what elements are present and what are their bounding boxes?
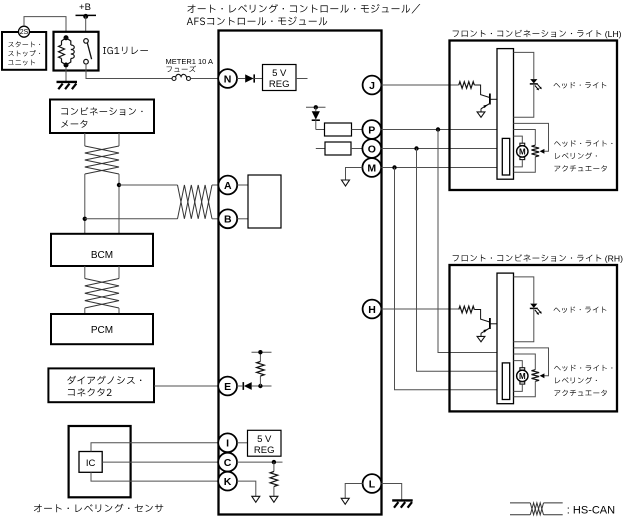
svg-text:2S: 2S [20,29,29,36]
position sensor potentiometer (RH) [514,354,540,397]
svg-text:PCM: PCM [91,325,113,336]
wire rail to resistor R1 [316,107,325,129]
internal ground arrow (L) [341,498,349,504]
svg-text:O: O [368,143,376,155]
svg-text:J: J [369,80,375,92]
diode D1 (N input) [245,74,254,82]
wire resistor to transistor base RH [474,310,489,322]
headlight label (LH) [554,82,607,88]
terminal P [362,120,381,139]
terminal E [218,377,237,396]
leveling motor M (RH) [514,361,529,392]
wire resistor to transistor base LH [474,85,489,97]
wire E to diode [237,385,243,387]
regulator U1 5V REG [263,65,297,91]
svg-text:REG: REG [269,79,290,90]
front combination light LH label [453,29,622,39]
wire C internal [237,460,283,464]
diode D3 (E) [243,382,251,390]
wire sensor IC to C [102,461,218,463]
svg-text:I: I [226,438,229,450]
potentiometer wiper wire (RH) [514,348,549,378]
svg-text:L: L [369,478,376,490]
front combination light RH label [453,253,623,263]
twisted pair wire (BCM-PCM) [85,266,119,314]
wire K internal [237,481,256,496]
wire N to diode [237,78,245,80]
lamp connector (LH) [497,49,514,180]
resistor (headlight relay drive RH) [459,306,475,313]
terminal K [218,472,237,491]
wire A to CAN block [237,184,248,186]
wire J to LH light [381,84,458,86]
connector 2S [19,26,30,37]
combination meter box [50,100,154,134]
relay IG1 switch [84,39,92,64]
wire R2 to O [351,148,362,150]
terminal H [363,300,382,319]
wire O to LH connector [381,146,502,150]
emitter ground arrow RH [477,336,485,341]
resistor R4 (C) [270,462,278,496]
wire L internal [345,484,362,499]
wire 5V REG output [296,78,308,80]
transistor Q (LH) [481,94,497,112]
terminal O [362,139,381,158]
junction on CAN-L line [83,217,87,221]
leveling actuator label (LH) [554,140,612,171]
headlight lamp LED (RH) [514,277,542,342]
resistor R3 (E pullup) [257,352,265,386]
svg-text:5 V: 5 V [272,68,287,79]
emitter ground arrow LH [477,112,485,117]
wire fuse to terminal N [191,78,219,80]
wire diode to junction [252,384,272,388]
svg-text:M: M [519,147,526,156]
actuator connector (LH) [502,138,509,175]
wire 2S to relay coil [24,17,66,37]
potentiometer wiper wire (LH) [514,123,549,153]
svg-text:M: M [519,372,526,381]
twisted pair wire (CAN to module) [85,185,219,219]
leveling actuator label (RH) [554,365,612,396]
legend twisted pair HS-CAN [510,503,615,516]
terminal A [218,176,237,195]
svg-text:(LH): (LH) [605,29,622,39]
diagnosis connector 2 box [48,368,154,402]
internal ground arrow (K) [252,496,260,502]
svg-text:K: K [224,476,232,488]
leveling motor M (LH) [514,136,529,167]
terminal I [218,433,237,452]
wire I to 5V REG2 [237,442,248,444]
actuator connector (RH) [502,363,509,400]
internal ground arrow (C) [270,496,278,502]
wire relay switch to fuse [86,64,172,79]
front combination light LH box [450,41,618,191]
wire diagnosis connector to E [154,385,218,387]
relay IG1 coil [59,35,75,67]
terminal C [218,453,237,472]
svg-text:B: B [224,214,232,226]
relay IG1 box [54,32,99,71]
auto leveling sensor box [69,426,131,497]
svg-text:+B: +B [79,2,91,13]
wire H to RH light [381,308,458,310]
svg-text:BCM: BCM [91,250,113,261]
sensor IC [79,452,102,473]
start-stop unit box [2,32,46,70]
wire M branch to RH [395,168,503,390]
svg-text:(RH): (RH) [605,253,623,263]
fuse label METER1 10A [166,57,214,72]
terminal L [363,474,382,493]
wire relay coil to ground [65,67,67,81]
svg-text:M: M [367,162,376,174]
wire O branch to RH [417,149,503,372]
wire P branch to RH [438,130,497,353]
svg-text:METER1 10 A: METER1 10 A [166,57,214,66]
wire R1 to P [352,129,363,131]
junction on CAN-H line [117,183,121,187]
lamp connector (RH) [497,273,514,404]
svg-text:H: H [368,304,376,316]
position sensor potentiometer (LH) [514,130,540,173]
ground (L) [392,500,413,507]
svg-text:A: A [224,180,232,192]
svg-text:IC: IC [86,458,96,469]
internal ground arrow (M) [342,180,350,186]
twisted pair wire (meter-BCM) [85,133,119,234]
auto leveling sensor label [34,504,163,513]
internal supply rail (P) [306,105,326,109]
wire M to LH connector [381,165,502,169]
+B power supply [76,2,97,19]
regulator U2 5V REG [248,430,282,456]
front combination light RH box [450,265,618,411]
wire P to LH connector [381,127,497,131]
headlight lamp LED (LH) [514,52,542,117]
CAN transceiver block [248,175,281,228]
wire L to ground [381,484,401,500]
wire stub to resistor R2 [316,148,325,150]
AFS control module box [219,31,382,515]
wire sensor IC to K [91,472,218,481]
resistor (headlight relay drive LH) [459,82,475,89]
svg-text:N: N [224,73,232,85]
fuse METER1 10A [172,74,191,80]
svg-text:E: E [224,381,231,393]
terminal N [218,69,237,88]
svg-text:REG: REG [254,445,275,456]
wire +B to relay switch [85,16,87,39]
resistor R2 (O) [325,142,351,155]
transistor Q (RH) [481,318,497,336]
wire sensor IC to I [91,443,218,452]
terminal M [362,158,381,177]
diode D2 (P output) [312,111,320,120]
svg-text:: HS-CAN: : HS-CAN [567,504,615,516]
BCM box [51,234,153,266]
terminal B [218,209,237,228]
wire B to CAN block [237,218,248,220]
internal supply rail (E) [252,350,272,354]
module title label [187,4,421,25]
headlight label (RH) [554,306,607,312]
relay IG1 label [103,47,148,55]
svg-text:C: C [224,457,232,469]
resistor R1 (P) [325,123,352,136]
ground (IG1 relay) [57,82,78,89]
PCM box [51,314,153,344]
wire diode to 5V REG [254,78,262,80]
wire M to internal ground [346,168,363,181]
svg-text:5 V: 5 V [257,434,272,445]
terminal J [363,76,382,95]
svg-text:P: P [368,124,375,136]
